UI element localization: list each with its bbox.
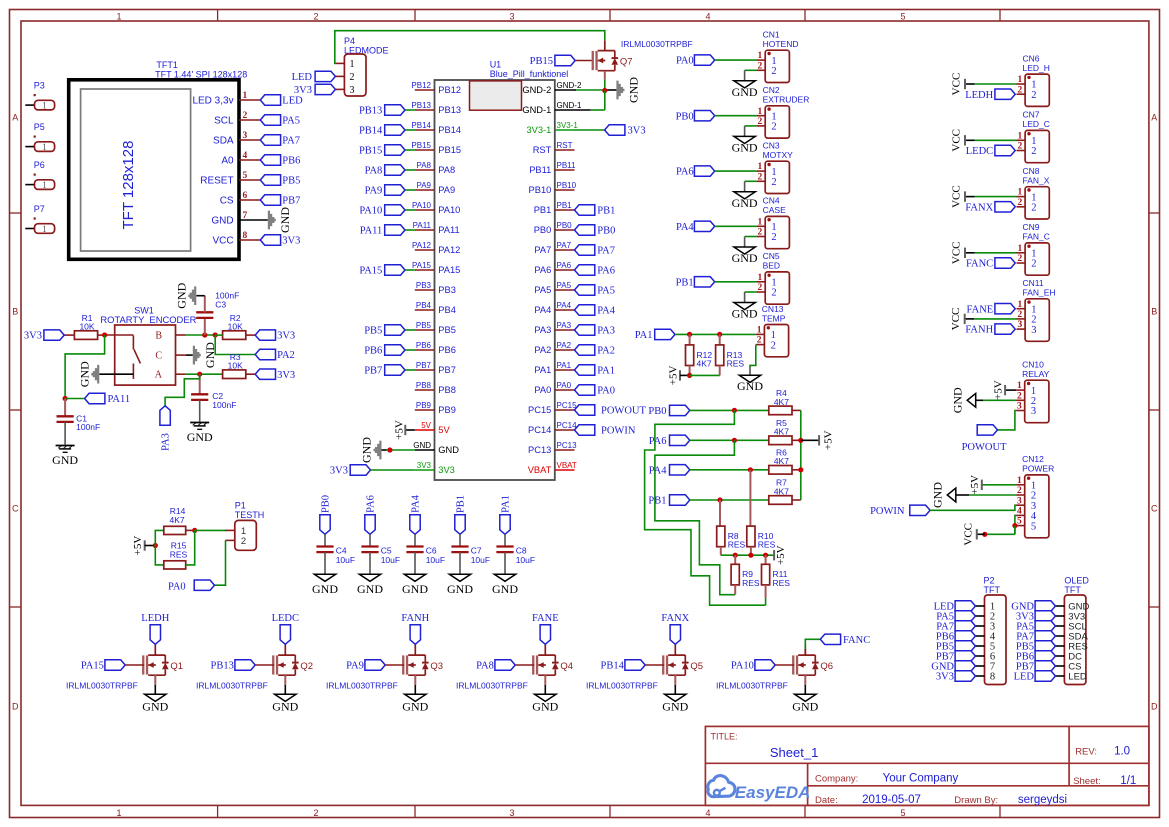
svg-text:CN5: CN5 [763, 251, 780, 261]
resistor R7 4K7 [769, 478, 801, 505]
net flag PB6 [260, 155, 300, 167]
svg-text:2019-05-07: 2019-05-07 [862, 794, 921, 806]
svg-text:CS: CS [220, 196, 234, 207]
svg-text:CN8: CN8 [1023, 166, 1040, 176]
svg-text:PB5: PB5 [438, 325, 456, 335]
net flag 3V3 at TFT1 pin 8 [260, 235, 300, 247]
svg-text:Q4: Q4 [560, 661, 573, 672]
svg-text:PB15: PB15 [530, 56, 553, 67]
P2 pin 6 net PB7 [936, 651, 995, 663]
U1 left pin PA8 [415, 161, 455, 175]
svg-text:PB0: PB0 [597, 226, 615, 237]
svg-text:8: 8 [243, 231, 248, 241]
capacitor C3 100nF [196, 291, 239, 336]
svg-text:1: 1 [758, 51, 763, 61]
svg-text:GND: GND [312, 582, 338, 596]
svg-text:PA3: PA3 [597, 326, 615, 337]
net flag 3V3 at R3 [255, 369, 295, 381]
svg-text:LEDH: LEDH [965, 90, 993, 101]
U1 left pin 5V [415, 421, 451, 435]
U1 right pin PA4 [534, 301, 574, 315]
U1 right pin VBAT [528, 461, 577, 475]
resistor R10 RES [747, 470, 776, 555]
svg-text:POWIN: POWIN [870, 506, 905, 517]
transistor Q4 IRLML0030TRPBF [456, 644, 573, 694]
net flag LEDC at Q2 drain [272, 613, 299, 644]
svg-text:GND-2: GND-2 [522, 85, 551, 95]
net flag PB1 above C7 [455, 495, 467, 534]
resistor R9 RES [731, 555, 760, 595]
net flag PA5 at U1 right [575, 285, 616, 297]
svg-text:PB7: PB7 [282, 196, 300, 207]
wire R14 junction to P1 pin 1 [195, 529, 227, 531]
svg-text:PB13: PB13 [211, 661, 234, 672]
svg-text:LEDC: LEDC [966, 146, 993, 157]
U1 right pin GND-1 [522, 101, 582, 115]
svg-text:3: 3 [509, 11, 514, 21]
svg-text:GND: GND [272, 700, 298, 714]
svg-text:PA11: PA11 [413, 221, 432, 230]
power VCC at CN12 pin 5 [962, 523, 987, 546]
svg-text:2: 2 [1017, 85, 1022, 95]
svg-text:7: 7 [243, 211, 248, 221]
svg-text:3: 3 [509, 808, 514, 818]
net flag PB5 at U1 left [364, 325, 415, 337]
svg-text:PB11: PB11 [557, 161, 577, 170]
capacitor C7 10uF [451, 534, 490, 574]
svg-text:POWIN: POWIN [601, 426, 636, 437]
svg-text:PB0: PB0 [676, 111, 694, 122]
svg-text:FANH: FANH [401, 613, 429, 624]
svg-text:2: 2 [771, 232, 776, 243]
svg-text:2: 2 [1031, 259, 1036, 270]
svg-text:PA1: PA1 [635, 330, 653, 341]
net flag LEDH at CN6 pin 2 [965, 89, 1015, 101]
net flag 3V3 at R2 [255, 330, 295, 342]
svg-text:P3: P3 [34, 81, 45, 91]
svg-text:PB5: PB5 [416, 321, 432, 330]
U1 right pin PC15 [528, 401, 577, 415]
svg-text:TITLE:: TITLE: [711, 732, 738, 742]
svg-text:PB1: PB1 [456, 495, 467, 513]
U1 right pin PC13 [528, 441, 577, 455]
net flag PA6 at CN3 pin 1 [676, 166, 757, 178]
net flag PA6 at R5 [649, 435, 769, 447]
svg-text:PB6: PB6 [364, 346, 382, 357]
svg-text:RES: RES [728, 540, 746, 550]
U1 left pin PB3 [415, 281, 456, 295]
svg-text:PB7: PB7 [438, 365, 456, 375]
svg-text:+5V: +5V [775, 545, 787, 565]
svg-text:C: C [12, 504, 19, 514]
svg-text:VBAT: VBAT [528, 465, 552, 475]
net flag PA8 at Q4 gate [476, 660, 534, 672]
svg-text:HOTEND: HOTEND [763, 39, 799, 49]
svg-text:PA15: PA15 [412, 261, 432, 270]
svg-text:LED_C: LED_C [1023, 119, 1050, 129]
svg-text:2: 2 [757, 336, 762, 346]
net flag PB15 at Q7 gate [530, 55, 592, 67]
wire +5V to R14 and R15 [155, 530, 163, 565]
connector CN11 FAN_EH [1017, 278, 1056, 341]
svg-text:PA7: PA7 [534, 245, 551, 255]
U1 right pin PA6 [534, 261, 574, 275]
net flag PA7 [260, 135, 300, 147]
connector CN2 EXTRUDER [757, 85, 810, 138]
svg-text:+5V: +5V [393, 420, 405, 440]
svg-text:PA0: PA0 [168, 582, 186, 593]
svg-text:2: 2 [758, 228, 763, 238]
svg-text:VCC: VCC [951, 241, 963, 264]
svg-text:PA7: PA7 [597, 246, 615, 257]
svg-text:FANC: FANC [966, 259, 993, 270]
net flag FANE at CN11 pin 1 [967, 304, 1016, 316]
resistor R14 4K7 [164, 506, 186, 534]
svg-text:PC15: PC15 [528, 405, 551, 415]
svg-text:PC15: PC15 [557, 401, 578, 410]
net flag PB0 at U1 right [575, 225, 616, 237]
svg-text:PB13: PB13 [438, 105, 461, 115]
net flag PA0 at P1 [168, 580, 215, 593]
svg-text:4: 4 [705, 808, 710, 818]
svg-text:GND-1: GND-1 [557, 101, 582, 110]
svg-text:PA8: PA8 [438, 165, 455, 175]
EasyEDA logo [708, 776, 811, 802]
net flag PA9 at U1 left [365, 185, 415, 197]
svg-text:POWER: POWER [1022, 464, 1054, 474]
svg-text:IRLML0030TRPBF: IRLML0030TRPBF [621, 39, 693, 49]
svg-text:1.0: 1.0 [1114, 746, 1130, 758]
svg-text:IRLML0030TRPBF: IRLML0030TRPBF [326, 681, 398, 691]
wire +5V rail right of R4-R7 [798, 410, 803, 500]
resistor R3 10K [223, 352, 256, 379]
svg-text:SW1: SW1 [134, 306, 154, 316]
wire R1 junction to PA11 node [65, 335, 105, 399]
net flag PA4 at U1 right [575, 305, 616, 317]
ground GND at CN3 pin 2 [732, 181, 758, 210]
svg-text:RES: RES [727, 359, 745, 369]
svg-text:PA15: PA15 [438, 265, 460, 275]
svg-text:PA6: PA6 [557, 261, 572, 270]
net flag PB1 at CN5 pin 1 [676, 277, 757, 289]
svg-text:PB4: PB4 [438, 305, 456, 315]
capacitor C2 100nF [191, 374, 236, 421]
svg-text:1/1: 1/1 [1120, 775, 1136, 787]
net flag PB14 at U1 left [359, 125, 415, 137]
U1 left pin PB5 [415, 321, 456, 335]
net flag PB13 at U1 left [359, 105, 415, 117]
net flag PA4 at R6 [649, 465, 769, 477]
svg-text:1: 1 [42, 224, 47, 234]
wire B junction to PA2 [215, 335, 255, 355]
svg-text:CN7: CN7 [1023, 110, 1040, 120]
wire SW1 A to R3 [186, 372, 223, 377]
svg-text:C3: C3 [215, 300, 226, 310]
svg-text:1: 1 [1017, 131, 1022, 141]
title block [705, 726, 1149, 806]
svg-text:2: 2 [771, 122, 776, 133]
svg-text:PA5: PA5 [534, 285, 551, 295]
net flag PA2 [255, 349, 295, 361]
net flag PB14 at Q5 gate [601, 660, 665, 672]
net flag PA0 at U1 right [575, 385, 616, 397]
svg-text:1: 1 [116, 808, 121, 818]
svg-text:VBAT: VBAT [557, 461, 577, 470]
svg-text:P6: P6 [34, 160, 45, 170]
svg-text:CN4: CN4 [763, 196, 780, 206]
U1 right pin 3V3-1 [526, 121, 578, 135]
svg-text:PA4: PA4 [557, 301, 572, 310]
resistor R11 RES [762, 555, 791, 605]
U1 right pin GND-2 [522, 81, 582, 95]
svg-text:3V3: 3V3 [277, 331, 295, 342]
wire U1 GND-2 net with junction [575, 88, 617, 93]
ground GND below C4 [312, 574, 338, 596]
svg-text:PA10: PA10 [731, 661, 754, 672]
svg-text:GND: GND [402, 700, 428, 714]
svg-text:GND: GND [357, 582, 383, 596]
svg-text:5V: 5V [421, 421, 431, 430]
svg-text:Your Company: Your Company [883, 773, 959, 785]
svg-text:PA4: PA4 [411, 494, 422, 512]
svg-text:PB14: PB14 [438, 125, 461, 135]
svg-text:PB0: PB0 [321, 495, 332, 513]
svg-text:U1: U1 [490, 60, 502, 70]
U1 right pin PB1 [534, 201, 575, 215]
svg-text:SCL: SCL [214, 116, 234, 127]
svg-text:3V3: 3V3 [417, 461, 432, 470]
capacitor C8 10uF [496, 534, 535, 574]
svg-text:LED: LED [292, 72, 313, 83]
ground GND at CN12 pin 2 [931, 482, 1017, 508]
svg-text:IRLML0030TRPBF: IRLML0030TRPBF [716, 681, 788, 691]
svg-text:FANE: FANE [967, 304, 994, 315]
svg-text:PA6: PA6 [366, 495, 377, 513]
svg-text:MOTXY: MOTXY [763, 150, 794, 160]
svg-text:PA11: PA11 [438, 225, 459, 235]
svg-text:GND-1: GND-1 [522, 105, 551, 115]
svg-text:PA1: PA1 [597, 366, 615, 377]
svg-text:2: 2 [771, 177, 776, 188]
svg-text:GND: GND [732, 196, 758, 210]
net flag 3V3 at R1 [24, 330, 64, 342]
ground GND at CN5 pin 2 [732, 292, 758, 321]
svg-text:1: 1 [758, 273, 763, 283]
svg-text:PB1: PB1 [597, 206, 615, 217]
svg-text:C: C [1151, 504, 1158, 514]
net flag PA15 at U1 left [359, 265, 414, 277]
wire +5V mid rail [721, 553, 774, 558]
svg-text:PA8: PA8 [476, 661, 494, 672]
net flag PB6 at U1 left [364, 345, 415, 357]
svg-text:PB10: PB10 [529, 185, 552, 195]
U1 right pin PA5 [534, 281, 574, 295]
svg-text:P5: P5 [34, 122, 45, 132]
svg-text:GND: GND [413, 441, 431, 450]
svg-text:RES: RES [773, 578, 791, 588]
connector CN3 MOTXY [757, 141, 794, 194]
svg-text:CN1: CN1 [763, 30, 780, 40]
connector CN4 CASE [757, 196, 790, 249]
MCU module U1 Blue_Pill_funktionel [435, 60, 569, 481]
net flag PA0 at CN1 pin 1 [676, 55, 757, 67]
P2 pin 4 net PB6 [936, 631, 996, 643]
net flag PB7 [260, 195, 300, 207]
svg-text:2: 2 [758, 283, 763, 293]
svg-text:2: 2 [771, 66, 776, 77]
svg-text:GND: GND [142, 700, 168, 714]
TFT1 pin 7 GND [211, 211, 267, 227]
svg-text:GND: GND [77, 361, 91, 387]
svg-text:GND: GND [402, 582, 428, 596]
svg-text:1: 1 [1017, 75, 1022, 85]
svg-text:PB12: PB12 [438, 85, 461, 95]
svg-text:5: 5 [900, 808, 905, 818]
svg-text:Sheet:: Sheet: [1073, 776, 1100, 787]
svg-text:FANH: FANH [965, 325, 993, 336]
svg-text:B: B [1151, 307, 1157, 317]
net flag FANX at Q5 drain [661, 613, 689, 644]
svg-text:RST: RST [557, 141, 573, 150]
svg-text:PA10: PA10 [438, 205, 460, 215]
svg-text:4: 4 [705, 11, 710, 21]
svg-text:PA12: PA12 [412, 241, 432, 250]
svg-text:LEDH: LEDH [141, 613, 169, 624]
TFT1 pin 6 CS [220, 191, 261, 207]
transistor Q5 IRLML0030TRPBF [586, 644, 703, 694]
svg-text:LED_H: LED_H [1023, 63, 1050, 73]
svg-text:4: 4 [243, 151, 248, 161]
connector OLED TFT [1064, 575, 1089, 684]
svg-text:3V3: 3V3 [936, 672, 954, 683]
svg-text:3V3-1: 3V3-1 [557, 121, 579, 130]
svg-text:PB3: PB3 [416, 281, 432, 290]
svg-text:Q1: Q1 [170, 661, 183, 672]
net flag PB1 at R7 [648, 495, 768, 507]
U1 left pin PB15 [411, 141, 461, 155]
svg-text:1: 1 [350, 59, 355, 70]
svg-text:5: 5 [1017, 517, 1022, 527]
svg-text:PA5: PA5 [282, 116, 300, 127]
svg-text:POWOUT: POWOUT [962, 442, 1007, 453]
svg-text:3: 3 [1017, 496, 1022, 506]
svg-text:PA0: PA0 [534, 385, 551, 395]
svg-text:PA5: PA5 [597, 286, 615, 297]
svg-text:2: 2 [1017, 391, 1022, 401]
svg-text:PB6: PB6 [282, 156, 300, 167]
svg-text:PB15: PB15 [359, 146, 382, 157]
svg-text:RES: RES [170, 549, 188, 559]
svg-text:Q2: Q2 [300, 661, 313, 672]
svg-text:GND: GND [278, 207, 292, 233]
connector P4 LEDMODE [335, 36, 388, 96]
ground GND below C6 [402, 574, 428, 596]
U1 right pin PA0 [534, 381, 574, 395]
svg-text:GND: GND [447, 582, 473, 596]
transistor Q7 IRLML0030TRPBF [592, 39, 693, 80]
net flag PB0 at CN2 pin 1 [676, 111, 757, 123]
svg-text:2: 2 [1017, 142, 1022, 152]
ground GND at CN4 pin 2 [732, 237, 758, 266]
svg-text:2: 2 [1031, 146, 1036, 157]
ground GND below C5 [357, 574, 383, 596]
svg-text:PC13: PC13 [557, 441, 578, 450]
net flag PA9 at Q3 gate [346, 660, 404, 672]
svg-text:VCC: VCC [951, 185, 963, 208]
ground GND at Q6 source [792, 694, 818, 713]
svg-text:PB13: PB13 [359, 106, 382, 117]
svg-text:FANC: FANC [843, 635, 870, 646]
connector CN13 TEMP [756, 304, 789, 357]
svg-text:GND: GND [187, 430, 213, 444]
svg-text:5V: 5V [438, 425, 450, 435]
net flag PA2 at U1 right [575, 345, 616, 357]
svg-text:TFT 128x128: TFT 128x128 [120, 141, 137, 230]
svg-text:1: 1 [758, 107, 763, 117]
svg-text:PA0: PA0 [597, 386, 615, 397]
svg-text:PB7: PB7 [416, 361, 432, 370]
U1 left pin PB12 [411, 81, 461, 95]
svg-text:Blue_Pill_funktionel: Blue_Pill_funktionel [490, 69, 569, 79]
net flag 3V3 at U1 3V3 pin [330, 465, 415, 477]
net flag POWIN at U1 PC14 [575, 425, 636, 437]
net flag PB0 above C4 [320, 495, 332, 534]
ground GND at CN13 pin 2 [737, 345, 763, 394]
TFT1 pin 2 SCL [214, 111, 260, 127]
resistor R6 4K7 [769, 448, 801, 475]
svg-text:PB15: PB15 [438, 145, 461, 155]
svg-text:PA11: PA11 [360, 226, 383, 237]
svg-text:PA10: PA10 [359, 206, 382, 217]
svg-text:IRLML0030TRPBF: IRLML0030TRPBF [66, 681, 138, 691]
svg-text:10uF: 10uF [426, 555, 445, 565]
svg-text:10uF: 10uF [336, 555, 355, 565]
svg-text:EXTRUDER: EXTRUDER [763, 95, 810, 105]
svg-text:PB8: PB8 [438, 385, 456, 395]
svg-text:P7: P7 [34, 204, 45, 214]
svg-text:PA15: PA15 [81, 661, 104, 672]
net flag PB13 at Q2 gate [211, 660, 275, 672]
svg-text:LED: LED [1068, 671, 1087, 682]
U1 left pin PB14 [411, 121, 461, 135]
connector CN12 POWER [1016, 454, 1054, 538]
ground GND at Q4 source [532, 694, 558, 713]
svg-text:PA4: PA4 [649, 465, 667, 476]
svg-text:+5V: +5V [969, 475, 981, 495]
svg-text:Q5: Q5 [690, 661, 703, 672]
P2 pin 3 net PA7 [936, 621, 995, 633]
svg-text:1: 1 [116, 11, 121, 21]
svg-text:D: D [12, 702, 19, 712]
svg-text:CN10: CN10 [1022, 360, 1044, 370]
svg-text:sergeydsi: sergeydsi [1018, 794, 1067, 806]
svg-text:GND: GND [360, 437, 374, 463]
net flag PA10 at U1 left [359, 205, 414, 217]
ground GND at Q3 source [402, 694, 428, 713]
resistor R15 RES [164, 540, 188, 569]
svg-text:1: 1 [1017, 381, 1022, 391]
capacitor C1 100nF [57, 399, 101, 445]
net flag PA15 at Q1 gate [81, 660, 144, 672]
svg-text:TESTH: TESTH [235, 510, 265, 520]
U1 right pin PB11 [529, 161, 576, 175]
net flag FANX at CN8 pin 2 [965, 202, 1015, 214]
OLED pin RES net PB5 [1016, 641, 1088, 653]
net flag FANC at Q6 drain [805, 634, 870, 655]
svg-text:10uF: 10uF [381, 555, 400, 565]
svg-text:RES: RES [758, 540, 776, 550]
U1 right pin PC14 [528, 421, 577, 435]
